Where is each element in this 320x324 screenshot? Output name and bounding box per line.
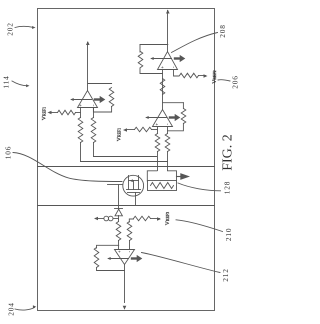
block divider (power device strip | sense block): [38, 166, 215, 168]
svg-text:+: +: [160, 66, 165, 69]
svg-text:VREF1: VREF1: [117, 128, 123, 141]
svg-text:208: 208: [218, 24, 227, 38]
sense resistor 128 box: [148, 181, 177, 191]
wire U2 -in to R: [93, 108, 95, 118]
leader 204: [15, 308, 35, 311]
VREF3 arrow: [157, 217, 161, 221]
svg-text:VREF3: VREF3: [165, 212, 171, 225]
leader 106: [13, 153, 122, 182]
op-amp U3 (second sense amplifier): [153, 110, 173, 127]
U3 feedback wire down: [163, 102, 184, 104]
U4 output arrow: [123, 306, 127, 310]
svg-text:FIG. 2: FIG. 2: [221, 134, 236, 171]
svg-text:VREF1: VREF1: [42, 107, 48, 120]
resistor into U3 +in: [155, 134, 160, 152]
op-amp U1 (output amplifier) fat down-arrow: [175, 57, 180, 59]
leader 202: [15, 26, 34, 27]
leader 206: [218, 80, 230, 81]
outer circuit box 202: [38, 9, 215, 311]
U1 feedback wire up: [140, 44, 168, 46]
op-amp U3 (second sense amplifier) up-arrow: [146, 117, 166, 119]
U1 feedback resistor: [138, 52, 143, 68]
current exit arrow below 128: [177, 176, 181, 178]
resistor into U3 -in: [165, 134, 170, 152]
op-amp U2 (first sense amplifier) fat down-arrow: [95, 98, 100, 100]
U4 feedback wire up: [97, 268, 125, 271]
wire to VREF2 arrow: [199, 75, 206, 77]
svg-text:-: -: [171, 66, 177, 68]
wire R2 to VREF3 branch: [129, 219, 133, 222]
current source: [114, 218, 119, 220]
diode cathode bar: [115, 208, 123, 210]
MOSFET gate electrode: [128, 192, 140, 194]
MOSFET body tap: [133, 181, 135, 190]
MOSFET channel bar: [127, 189, 141, 191]
wire U2 +in to R: [80, 108, 82, 118]
MOSFET gate lead to divider: [135, 193, 137, 206]
MOSFET drain tap: [128, 181, 130, 190]
sense wire A jog to Rsense box top: [147, 171, 157, 181]
U4 output wire to box edge: [124, 265, 126, 303]
MOSFET source tap: [138, 181, 140, 190]
wire to VREF1 arrow: [50, 112, 58, 114]
MOSFET body arrow: [130, 179, 133, 182]
svg-text:202: 202: [5, 22, 14, 36]
leader 204 arrowhead: [33, 305, 36, 308]
svg-text:VREF2: VREF2: [212, 70, 218, 83]
leader 208: [172, 33, 218, 53]
leader 212: [142, 253, 221, 273]
sense resistor 128 zigzag: [151, 183, 174, 189]
svg-text:204: 204: [7, 302, 16, 316]
wire U3 +in: [157, 127, 159, 134]
wire to drop line: [80, 143, 82, 162]
wire U1 +in: [174, 70, 180, 76]
leader 202 arrowhead: [32, 26, 35, 29]
wire to VREF3 arrow: [151, 218, 160, 220]
MOSFET tie bar stubs: [128, 176, 130, 181]
resistor R into U2 -in: [91, 118, 96, 143]
leader 114: [12, 81, 28, 86]
op-amp U1 (output amplifier): [158, 52, 178, 70]
MOSFET drain lead up: [108, 184, 123, 186]
wire to VREF1 arrow at U3: [126, 129, 135, 131]
wire U4 -in: [129, 241, 131, 250]
svg-text:-: -: [165, 123, 171, 125]
svg-text:+: +: [78, 104, 83, 107]
VREF1 arrow at U3: [123, 128, 127, 132]
diode to divider stub: [118, 206, 120, 210]
resistor to VREF3: [134, 216, 151, 221]
U3 feedback wire: [182, 103, 184, 109]
U2 feedback wire to -in: [93, 106, 111, 112]
resistor to VREF1 at U3: [135, 127, 152, 132]
resistor R1 to U4 +in: [116, 222, 121, 241]
vertical wire drop to sense node A: [94, 156, 157, 158]
op-amp U4 (driver amplifier 212): [115, 250, 135, 265]
U1 output wire to box edge: [167, 11, 169, 52]
resistor U3 out to U1 -in: [160, 79, 165, 95]
op-amp U4 (driver amplifier 212) up-arrow: [108, 258, 128, 260]
MOSFET source-drain tie bar: [129, 180, 139, 182]
diode at block boundary: [115, 209, 122, 216]
U4 feedback resistor: [94, 248, 99, 268]
svg-text:-: -: [127, 251, 133, 253]
op-amp U1 (output amplifier) up-arrow: [151, 58, 171, 60]
svg-text:106: 106: [4, 146, 13, 160]
sense wire B: [167, 152, 169, 171]
U3 feedback resistor: [181, 109, 186, 124]
leader 128: [178, 183, 221, 191]
vertical wire drop to sense node B: [81, 161, 168, 163]
current source arrow: [94, 217, 98, 221]
svg-text:114: 114: [2, 75, 11, 88]
wire U4 +in: [118, 241, 120, 250]
sense wire A: [157, 152, 159, 171]
resistor to VREF2: [180, 73, 199, 78]
resistor R2 to U4 -in: [127, 222, 132, 241]
U2 output wire: [87, 43, 89, 91]
leader 114 arrowhead: [26, 84, 29, 87]
resistor R into U2 +in: [78, 118, 83, 143]
svg-text:210: 210: [224, 228, 233, 242]
U1 feedback wire to -in: [140, 68, 163, 74]
VREF1 branch wire at U3: [152, 129, 158, 131]
power MOSFET 106 circle: [123, 175, 144, 196]
block divider (204 | power device strip): [38, 205, 215, 207]
diode anode wire: [118, 216, 120, 220]
U2 feedback wire down: [88, 83, 112, 85]
U3 feedback wire to -in: [168, 123, 184, 131]
svg-text:+: +: [155, 123, 160, 126]
sense wire B jog to Rsense box bottom: [168, 171, 177, 181]
U3 output wire to U1 -in resistor: [162, 70, 164, 110]
wire U3 -in: [167, 127, 169, 134]
VREF2 arrow: [204, 74, 208, 78]
wire to drop line: [93, 143, 95, 157]
leader 210: [176, 220, 223, 232]
VREF1 arrow: [48, 111, 52, 115]
svg-text:+: +: [117, 250, 122, 253]
drain sense branch to left block: [118, 185, 120, 206]
op-amp U3 (second sense amplifier) fat down-arrow: [170, 116, 175, 118]
U1 feedback wire: [139, 45, 141, 53]
op-amp U2 (first sense amplifier) up-arrow: [71, 99, 91, 101]
op-amp U4 (driver amplifier 212) fat down-arrow: [132, 257, 137, 259]
resistor to VREF1: [58, 110, 76, 115]
wire R1 to node: [118, 219, 120, 222]
VREF1 branch wire: [76, 112, 81, 114]
svg-text:206: 206: [231, 75, 240, 89]
U2 output arrow: [86, 41, 90, 45]
svg-text:128: 128: [223, 181, 232, 195]
svg-text:212: 212: [221, 268, 230, 282]
U2 feedback resistor: [109, 88, 114, 107]
op-amp U2 (first sense amplifier): [78, 91, 98, 108]
U4 feedback wire to +in: [97, 245, 119, 248]
svg-text:-: -: [91, 104, 97, 106]
U1 output arrow: [166, 10, 170, 14]
